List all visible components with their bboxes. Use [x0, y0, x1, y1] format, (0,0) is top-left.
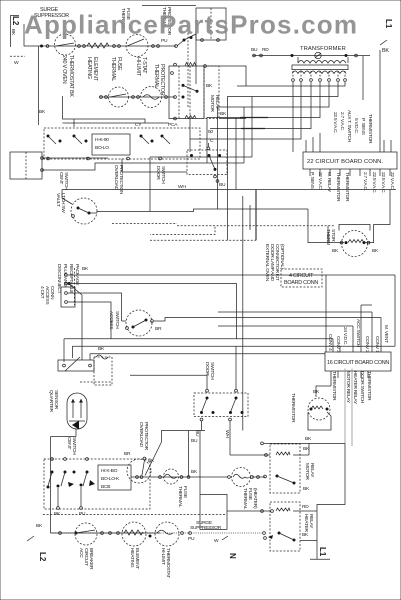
svg-text:SWITCH: SWITCH: [63, 172, 69, 190]
thermistor (oven sensor): [332, 225, 379, 257]
node L2 (bottom left): [27, 523, 47, 562]
broil element (dashed circle): [109, 87, 129, 107]
wires from cent switch: [42, 158, 244, 172]
thermal protector box (top center): [196, 8, 226, 41]
node terminals on top bus: [40, 45, 49, 48]
svg-text:22 V.A.C.: 22 V.A.C.: [317, 172, 323, 190]
svg-text:SUPPRESSOR: SUPPRESSOR: [190, 525, 222, 531]
transformer T1: [292, 52, 348, 73]
vault latch solenoid (dashed circle): [71, 198, 97, 224]
svg-text:BK: BK: [303, 486, 310, 492]
label access switch (vertical): [108, 311, 120, 330]
svg-text:THERMAL: THERMAL: [153, 64, 159, 88]
svg-text:BK: BK: [10, 29, 16, 36]
svg-text:22 CIRCUIT BOARD CONN.: 22 CIRCUIT BOARD CONN.: [307, 159, 383, 165]
svg-text:CONV 4: CONV 4: [327, 334, 333, 351]
svg-text:M. VENT: M. VENT: [383, 325, 389, 343]
node terminals bottom bus: [59, 532, 266, 538]
wires door switch feeds: [130, 196, 243, 455]
clock timer box: [98, 465, 131, 490]
wire long rails right: [345, 369, 352, 447]
wire verticals into row: [142, 431, 205, 495]
surge suppressor label (top): [34, 7, 69, 19]
svg-text:RECEPTACLE: RECEPTACLE: [68, 264, 74, 294]
svg-text:2.7 V.A.C.: 2.7 V.A.C.: [362, 172, 368, 191]
svg-text:BU: BU: [219, 182, 226, 188]
svg-text:BK: BK: [332, 248, 339, 254]
svg-text:BK: BK: [382, 48, 389, 54]
quarter sensor assembly box: [58, 357, 94, 371]
wire branch rows left: [39, 96, 169, 127]
surge suppressor component: [55, 34, 76, 55]
label therm stor (vertical): [325, 229, 336, 245]
svg-text:22.5 V.A.C.: 22.5 V.A.C.: [380, 172, 386, 193]
labels bottom components (vertical): [78, 548, 171, 578]
svg-text:BK: BK: [39, 109, 46, 115]
wire from vault latch: [62, 190, 308, 212]
quarter sensor capsule: [67, 393, 87, 430]
svg-text:LTCH SW: LTCH SW: [60, 193, 66, 213]
node L1 (bottom): [310, 547, 330, 559]
heating element lower (dashed circle + zigzag): [122, 522, 146, 546]
svg-text:BK: BK: [54, 511, 61, 517]
label 4ckt access conn (vertical 3col): [39, 286, 55, 305]
wire L2 top bus: [24, 24, 176, 46]
svg-text:H-K-90: H-K-90: [95, 137, 109, 143]
svg-text:BK: BK: [305, 436, 312, 442]
label disconnect plug (vertical 4col): [56, 264, 80, 294]
svg-text:SENSOR: SENSOR: [53, 390, 59, 410]
svg-text:BK: BK: [302, 532, 309, 538]
wire left rail: [38, 46, 40, 125]
labels 16conn lower (vertical): [331, 371, 372, 405]
label oven thermostat (vertical): [61, 55, 74, 97]
oven damper switch (dashed circle): [127, 459, 151, 483]
thermal protector switch lever: [161, 34, 196, 46]
wire bottom bus N: [51, 532, 263, 534]
hi-limit thermostat lower (dashed circle): [155, 522, 179, 546]
22 circuit board connector U1: [303, 152, 397, 169]
node N (bottom): [214, 536, 237, 559]
wires thermistor lower bracket: [308, 386, 331, 430]
svg-text:SWITCH: SWITCH: [209, 362, 215, 380]
svg-text:PROTECTOR: PROTECTOR: [143, 422, 149, 451]
label thermal fuse heater (vertical): [242, 488, 258, 510]
svg-text:ACC SWITCH: ACC SWITCH: [355, 319, 361, 348]
node terminals: [132, 96, 140, 99]
svg-text:THERMAL: THERMAL: [110, 57, 116, 81]
svg-text:5 V.D.C.: 5 V.D.C.: [353, 118, 359, 134]
wires transformer secondary nest: [190, 82, 345, 240]
svg-text:WH: WH: [178, 184, 186, 190]
svg-text:P. SENS: P. SENS: [309, 172, 315, 190]
svg-text:BK: BK: [220, 111, 227, 117]
svg-text:T-STAT: T-STAT: [141, 57, 147, 74]
svg-text:L2: L2: [11, 16, 20, 26]
svg-text:240 V OVEN: 240 V OVEN: [61, 55, 67, 84]
wire vertical x196: [195, 31, 197, 84]
svg-text:MOTOR RELAY: MOTOR RELAY: [345, 371, 351, 404]
svg-text:HI K-BO: HI K-BO: [101, 468, 118, 474]
svg-text:BU: BU: [251, 47, 258, 53]
wire L1 top branch: [261, 442, 345, 559]
svg-text:CONN: CONN: [49, 286, 55, 300]
node terminals row2: [100, 96, 108, 99]
svg-text:ELEMENT: ELEMENT: [134, 548, 140, 569]
wire motor relay coil feed: [230, 454, 270, 457]
svg-text:THERMISTOR: THERMISTOR: [335, 172, 341, 202]
svg-text:PU: PU: [79, 511, 86, 517]
svg-text:(OPTIONAL): (OPTIONAL): [279, 244, 285, 270]
svg-text:STOR: STOR: [330, 229, 336, 242]
labels 22conn pins (vertical): [309, 172, 395, 202]
svg-text:BU: BU: [191, 438, 198, 444]
node terminals: [113, 45, 121, 48]
svg-text:WH: WH: [224, 430, 230, 438]
svg-text:THERMISTOR: THERMISTOR: [367, 114, 373, 144]
svg-text:CY: CY: [135, 122, 142, 128]
svg-text:HEATING: HEATING: [86, 57, 92, 79]
svg-text:L1: L1: [384, 19, 393, 29]
node terminals: [152, 45, 178, 48]
wire dark segments: [240, 118, 268, 129]
label cent switch (vertical): [58, 172, 69, 190]
cent switch box: [10, 152, 43, 179]
svg-text:P. SENS: P. SENS: [360, 118, 366, 136]
svg-text:THERMISTOR: THERMISTOR: [344, 172, 350, 202]
label thermal fuse top (vertical): [120, 8, 131, 30]
svg-text:AUX T. SWITCH: AUX T. SWITCH: [346, 110, 352, 143]
16 circuit board connector U2: [325, 352, 391, 371]
door lock circuit breaker (dashed circle): [75, 523, 97, 545]
svg-text:SWITCH: SWITCH: [160, 166, 166, 184]
svg-text:BOARD CONN: BOARD CONN: [284, 280, 318, 286]
door switch cluster (lower): [194, 389, 248, 438]
svg-text:22.5 V.A.C.: 22.5 V.A.C.: [371, 172, 377, 193]
svg-text:RD: RD: [302, 504, 309, 510]
label overload protector (vertical): [138, 422, 155, 464]
svg-text:PU: PU: [188, 536, 195, 542]
label door switch (vertical): [155, 166, 166, 184]
svg-text:BO-LO-K: BO-LO-K: [101, 476, 120, 482]
label vault latch (vertical): [55, 193, 66, 213]
label cent switch lower (vertical): [66, 437, 77, 455]
motor relay box: [169, 63, 219, 120]
svg-text:RELAY: RELAY: [308, 514, 314, 529]
wire second row: [99, 96, 175, 98]
label 4 circuit board conn: [281, 269, 322, 287]
heating element (top, zigzag): [87, 43, 109, 48]
svg-text:L2: L2: [38, 552, 47, 562]
svg-text:BK: BK: [82, 266, 89, 272]
svg-text:CONV 1: CONV 1: [374, 336, 380, 353]
node L2 (top left line terminal): [10, 16, 25, 66]
svg-text:4 CIRCUIT: 4 CIRCUIT: [289, 273, 314, 279]
label motor relay (vertical): [303, 463, 315, 492]
svg-text:PROTECTION: PROTECTION: [118, 165, 124, 195]
label quarter sensor (vertical): [48, 390, 59, 412]
door switch cluster (upper): [178, 138, 227, 190]
svg-text:AppliancePartsPros.com: AppliancePartsPros.com: [24, 10, 358, 40]
svg-text:BK: BK: [303, 446, 310, 452]
label external odr lamp connector (vertical 4col): [264, 244, 285, 282]
wires into 16conn from above: [218, 275, 381, 352]
wire sensor drop: [51, 429, 77, 533]
wire protector box top: [142, 5, 196, 7]
svg-text:BK: BK: [36, 523, 43, 529]
svg-text:BU: BU: [194, 430, 200, 437]
svg-text:2.7 V.A.C.: 2.7 V.A.C.: [339, 112, 345, 131]
svg-text:ELEMENT: ELEMENT: [92, 57, 98, 82]
label thermal protector top (vertical): [161, 7, 172, 36]
label door switch lower (vertical): [204, 362, 215, 380]
svg-text:THERMOSTAT: THERMOSTAT: [165, 548, 171, 578]
svg-text:RD: RD: [262, 47, 269, 53]
svg-text:BK: BK: [191, 469, 198, 475]
svg-text:24 V.D.C.: 24 V.D.C.: [342, 327, 348, 345]
label thermal protector (vertical): [153, 64, 165, 96]
wires from relay box right: [190, 66, 246, 152]
wire transformer primary: [251, 47, 370, 57]
thermal fuse (latch): [164, 469, 179, 484]
svg-text:M. RELAY: M. RELAY: [326, 172, 332, 193]
svg-text:THERMISTOR: THERMISTOR: [331, 371, 337, 401]
svg-text:RELAY: RELAY: [309, 463, 315, 478]
svg-text:FUSE: FUSE: [182, 486, 188, 499]
svg-text:FUSE: FUSE: [116, 57, 122, 71]
wire heater relay out: [300, 540, 317, 542]
motor relay K1 (dashed box): [264, 444, 300, 493]
svg-text:L1: L1: [318, 547, 327, 557]
svg-text:CONV 3: CONV 3: [335, 336, 341, 353]
svg-text:16 CIRCUIT BOARD CONN: 16 CIRCUIT BOARD CONN: [327, 360, 389, 366]
label heater relay (vertical): [302, 514, 314, 538]
svg-text:BK: BK: [313, 389, 320, 395]
svg-text:THERMISTOR: THERMISTOR: [366, 371, 372, 401]
transformer secondary pin terminals: [292, 71, 347, 81]
svg-text:50: 50: [208, 129, 213, 135]
access switch (dashed circle): [122, 310, 382, 336]
labels below selector: [54, 451, 131, 517]
label hi-limit (vertical): [135, 57, 147, 77]
svg-text:ACCESS: ACCESS: [108, 311, 114, 330]
wire surge row: [43, 494, 227, 529]
svg-text:BK: BK: [98, 346, 105, 352]
wires middle band: [62, 157, 396, 240]
svg-text:THERMOSTAT BK: THERMOSTAT BK: [68, 55, 74, 97]
label surge suppressor (bottom): [188, 520, 222, 542]
svg-text:N: N: [228, 553, 237, 559]
svg-text:SWITCH: SWITCH: [114, 311, 120, 329]
connector plug circles: [61, 266, 89, 307]
label overload protection (vertical): [113, 165, 124, 195]
svg-text:HI-LIMIT: HI-LIMIT: [135, 57, 141, 77]
svg-text:CONV 2: CONV 2: [364, 336, 370, 353]
hi-limit thermostat (dashed circle): [126, 35, 148, 57]
wires 22conn top stubs: [306, 50, 391, 152]
wires lower bus rows: [64, 312, 395, 362]
selector switch dashed box (bottom left): [44, 458, 150, 510]
label thermal fuse 2 (vertical): [110, 57, 122, 81]
svg-text:22.5 V.A.C.: 22.5 V.A.C.: [332, 112, 338, 133]
thermal fuse heater F2: [228, 468, 265, 487]
svg-text:22 V.A.C.: 22 V.A.C.: [389, 172, 395, 190]
svg-text:SWITCH: SWITCH: [71, 437, 77, 455]
convection motor (dashed circle): [141, 87, 168, 108]
svg-text:(HEATER): (HEATER): [252, 488, 258, 509]
node L1 (top right): [380, 19, 393, 54]
svg-text:BR: BR: [155, 326, 162, 332]
svg-text:BREAKER: BREAKER: [88, 548, 94, 570]
labels 16conn upper (vertical): [327, 319, 389, 353]
pins below 16conn: [331, 371, 368, 386]
pins below 22conn: [310, 169, 390, 176]
svg-text:THERMISTOR: THERMISTOR: [290, 393, 296, 423]
heater relay K2 (dashed box): [264, 502, 300, 551]
svg-text:BCB: BCB: [101, 484, 110, 490]
label motor relay (vertical 2col): [206, 83, 227, 135]
wire row y477: [131, 476, 228, 479]
svg-text:DOOR SWITCH: DOOR SWITCH: [359, 371, 365, 404]
svg-text:W: W: [214, 538, 219, 544]
bake broil relay dashed box: [44, 122, 200, 160]
label thermal fuse (vertical): [177, 486, 188, 508]
svg-text:W: W: [14, 60, 19, 66]
wire connector exit: [68, 282, 83, 360]
svg-text:PCA: PCA: [168, 122, 178, 128]
wire heater coil feed: [227, 504, 317, 512]
oven light fuse (dashed): [80, 355, 112, 385]
svg-text:BK: BK: [206, 83, 213, 89]
wire vertical from protector: [187, 33, 189, 108]
node terminals: [78, 45, 86, 48]
svg-text:BR: BR: [124, 451, 131, 457]
svg-text:BK: BK: [372, 248, 379, 254]
thermistor (lower): [305, 389, 330, 442]
wires thermistor bracket: [308, 190, 390, 243]
svg-text:BO-LO: BO-LO: [95, 145, 109, 151]
wires main harness: [68, 275, 395, 346]
labels 22conn top (vertical): [332, 110, 373, 144]
label heating element col (vertical): [86, 57, 98, 82]
svg-text:HEATER RELAY: HEATER RELAY: [352, 371, 358, 405]
svg-text:TRANSFORMER: TRANSFORMER: [300, 46, 346, 52]
